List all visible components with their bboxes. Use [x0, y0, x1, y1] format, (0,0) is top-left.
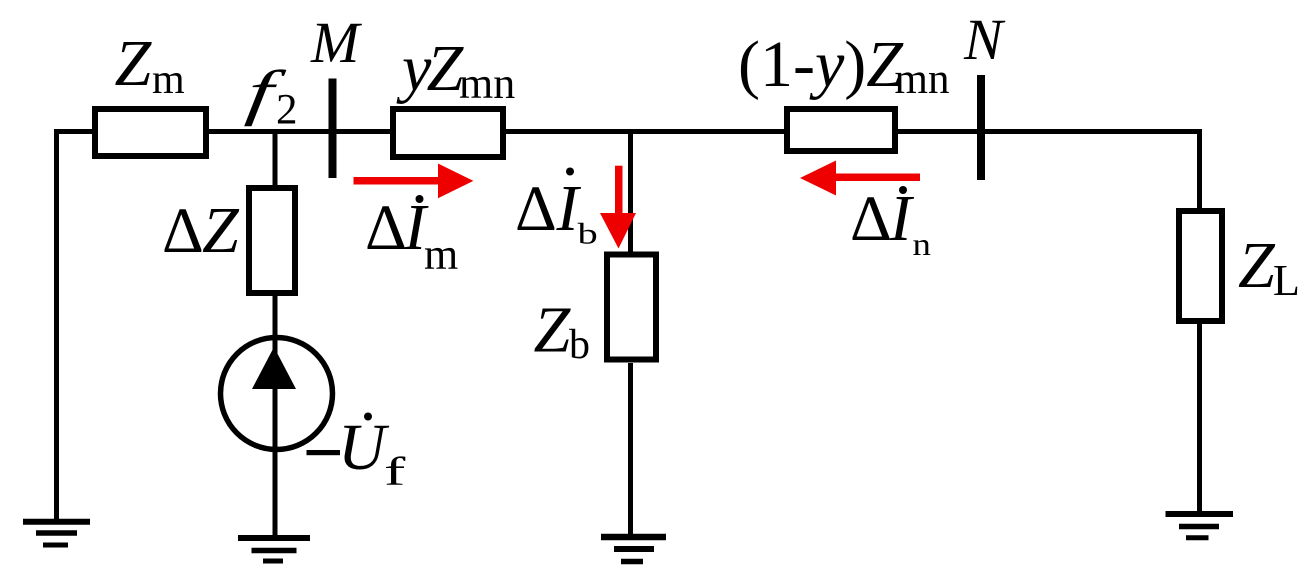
node f2 — [243, 58, 297, 134]
wire Zb branch upper segment — [628, 132, 633, 255]
svg-text:N: N — [963, 7, 1006, 72]
wire left vertical drop to ground — [54, 129, 59, 522]
resistor yZmn — [393, 32, 515, 157]
bus M — [310, 10, 362, 178]
svg-text:n: n — [913, 227, 931, 262]
svg-text:L: L — [1273, 256, 1300, 305]
svg-text:b: b — [569, 322, 590, 368]
svg-text:Δ: Δ — [850, 183, 892, 255]
arrow dIb (red, downward) — [600, 166, 636, 249]
label dIm — [365, 191, 458, 279]
resistor (1-y)Zmn — [738, 28, 949, 151]
ground left — [23, 522, 90, 545]
arrow dIn (red, leftward) — [800, 161, 920, 196]
wire right vertical upper segment — [1197, 129, 1202, 210]
svg-text:m: m — [152, 57, 185, 103]
svg-text:Z: Z — [202, 194, 240, 267]
ground right — [1166, 514, 1234, 538]
svg-text:mn: mn — [459, 59, 515, 108]
current source U1 (-Uf) — [221, 338, 333, 450]
label dIn — [850, 182, 931, 262]
resistor ZL — [1179, 211, 1300, 321]
svg-text:Δ: Δ — [365, 192, 407, 264]
svg-text:Z: Z — [1238, 229, 1276, 302]
wire f2 branch upper segment — [273, 132, 278, 189]
arrow dIm (red, rightward) — [354, 164, 474, 199]
wire Zb branch lower segment to ground — [628, 363, 633, 539]
svg-text:M: M — [310, 10, 362, 75]
resistor Zb — [534, 255, 657, 369]
ground source — [238, 538, 310, 561]
svg-text:Z: Z — [115, 27, 153, 100]
bus N — [963, 7, 1006, 180]
svg-text:mn: mn — [895, 56, 950, 103]
wire right vertical lower segment to ground — [1197, 322, 1202, 516]
svg-text:Δ: Δ — [162, 195, 204, 267]
label -Uf — [307, 411, 406, 494]
svg-text:Z: Z — [534, 294, 572, 367]
svg-text:U: U — [338, 411, 390, 484]
svg-text:b: b — [578, 217, 598, 251]
svg-text:(1-y)Z: (1-y)Z — [738, 28, 904, 101]
wire main horizontal bus M-N top — [54, 129, 1202, 134]
ground Zb — [601, 537, 666, 562]
wire f2 branch lower segment through source to ground — [273, 294, 278, 538]
label dIb — [515, 168, 598, 251]
resistor dZ — [162, 188, 295, 293]
svg-text:2: 2 — [276, 87, 298, 134]
resistor Zm — [95, 27, 206, 156]
svg-text:Δ: Δ — [515, 173, 557, 245]
svg-text:f: f — [384, 449, 406, 494]
svg-text:m: m — [424, 230, 458, 279]
